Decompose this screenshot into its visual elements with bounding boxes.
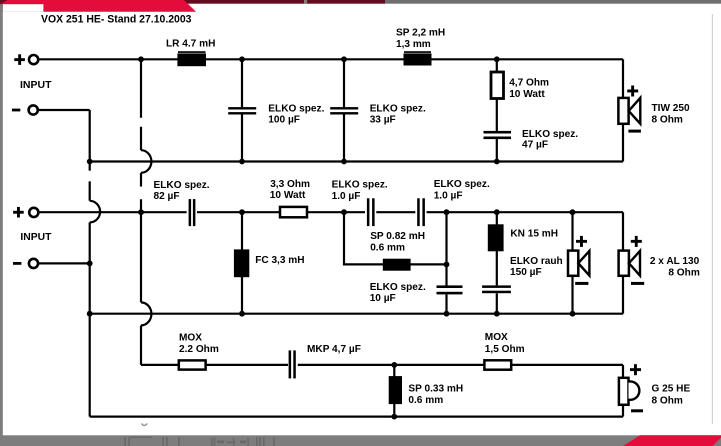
resistor 3,3 Ohm 10 Watt <box>280 207 307 217</box>
wire: circuit3 bottom rail <box>90 416 623 418</box>
wire: circuit1 bottom rail <box>90 160 623 162</box>
wire: circuit1 top rail <box>38 58 623 60</box>
svg-text:10 Watt: 10 Watt <box>509 89 545 100</box>
svg-text:MKP 4,7 µF: MKP 4,7 µF <box>307 344 361 355</box>
capacitor ELKO spez. 1.0uF no.2 (series) <box>417 198 425 226</box>
svg-text:SP 0.33 mH: SP 0.33 mH <box>408 384 463 395</box>
input terminal plus circuit2 <box>13 207 38 218</box>
maroon corner triangle <box>0 0 8 5</box>
svg-text:ELKO spez.: ELKO spez. <box>268 104 324 115</box>
speaker TIW 250 minus sign <box>628 130 641 133</box>
resistor 4,7 Ohm 10 Watt <box>491 72 504 99</box>
bottom band thumbnail marks <box>124 437 275 446</box>
wire: vertical E (ELKO 10uF) <box>445 212 447 314</box>
svg-text:1,3 mm: 1,3 mm <box>396 39 431 50</box>
svg-text:8 Ohm: 8 Ohm <box>668 267 699 278</box>
svg-text:ELKO spez.: ELKO spez. <box>332 180 388 191</box>
svg-text:3,3 Ohm: 3,3 Ohm <box>270 179 310 190</box>
svg-text:1.0 µF: 1.0 µF <box>332 191 361 202</box>
junction dot input2 minus tee <box>87 261 93 267</box>
svg-text:10 Watt: 10 Watt <box>270 190 306 201</box>
svg-text:ELKO rauh: ELKO rauh <box>510 256 563 267</box>
wire: vertical A lower <box>89 222 91 416</box>
junction dot circuit3 bottom rail <box>391 414 397 420</box>
svg-text:ELKO spez.: ELKO spez. <box>370 282 426 293</box>
junction dot circuit3 branch <box>391 362 397 368</box>
junction dots circuit1 bottom rail <box>87 159 500 165</box>
left gray border <box>0 4 3 446</box>
svg-text:VOX 251 HE- Stand 27.10.2003: VOX 251 HE- Stand 27.10.2003 <box>41 13 192 25</box>
svg-text:1.0 µF: 1.0 µF <box>434 191 463 202</box>
speaker TIW 250 <box>618 98 640 124</box>
svg-text:FC 3,3 mH: FC 3,3 mH <box>255 255 304 266</box>
wire: input2 minus lead <box>38 262 90 264</box>
input terminal minus circuit2 <box>13 259 38 268</box>
wire: circuit3 branch line <box>141 364 623 366</box>
svg-text:ELKO spez.: ELKO spez. <box>370 104 426 115</box>
wire: SP 0.82 branch (from junction at x344 down and right) <box>344 212 447 264</box>
speaker AL130 no.1 plus sign <box>576 236 587 247</box>
speaker TIW 250 plus sign <box>627 86 638 97</box>
junction dots circuit2 top rail <box>138 209 575 215</box>
capacitor ELKO spez. 100uF <box>228 107 256 114</box>
speaker AL130 no.1 <box>568 251 589 276</box>
wire: vertical G (speaker AL130 no.1) <box>571 212 573 314</box>
resistor MOX 1,5 Ohm <box>484 360 511 369</box>
capacitor ELKO rauh 150uF <box>482 285 511 293</box>
junction dots circuit2 bottom rail <box>87 311 576 317</box>
faint arc mark below bottom rail <box>142 424 148 426</box>
input terminal minus circuit1 <box>12 105 38 114</box>
svg-text:G 25 HE: G 25 HE <box>652 384 691 395</box>
wire: vertical F circuit1 (4,7 Ohm + 47uF branch) <box>496 59 498 161</box>
svg-text:ELKO spez.: ELKO spez. <box>434 179 490 190</box>
wire: vertical F circuit2 (KN + 150uF) <box>496 212 498 314</box>
wire: vertical D circuit1 (cap 33uF branch) <box>343 59 345 161</box>
wire: vertical C circuit1 (cap 100uF branch) <box>241 59 243 161</box>
svg-text:33 µF: 33 µF <box>370 114 396 125</box>
svg-text:INPUT: INPUT <box>20 80 52 91</box>
svg-text:8 Ohm: 8 Ohm <box>652 395 683 406</box>
top banner light tick in maroon strip <box>304 0 307 4</box>
svg-text:0.6 mm: 0.6 mm <box>370 242 405 253</box>
top banner gray strip <box>385 0 721 4</box>
speaker AL130 no.2 <box>619 251 640 276</box>
capacitor ELKO spez. 82uF (series) <box>189 199 196 226</box>
wire: circuit3 right drop <box>622 365 624 417</box>
resistor MOX 2,2 Ohm <box>179 360 206 369</box>
speaker AL130 no.2 plus sign <box>631 236 642 247</box>
svg-text:MOX: MOX <box>179 333 202 344</box>
svg-text:LR 4.7 mH: LR 4.7 mH <box>166 38 215 49</box>
wire: circuit1 right rail <box>622 59 624 161</box>
wire: vertical B middle segments <box>140 173 142 303</box>
inductor FC 3,3 mH <box>234 249 249 277</box>
inductor SP 0.82 mH <box>383 259 411 271</box>
capacitor MKP 4,7uF (series) <box>289 350 296 378</box>
wire hop: vertical A over circuit2 top rail <box>90 201 100 223</box>
capacitor ELKO spez. 33uF <box>330 107 358 114</box>
wire: input1 minus lead <box>38 109 90 111</box>
wire: circuit2 top rail <box>38 211 623 213</box>
svg-text:KN 15 mH: KN 15 mH <box>510 229 558 240</box>
svg-text:ELKO spez.: ELKO spez. <box>522 129 578 140</box>
bottom gray band <box>0 435 721 446</box>
inductor SP 0.33 mH <box>389 376 402 404</box>
wire: vertical at FC 3,3mH <box>241 212 243 314</box>
svg-text:2 x AL 130: 2 x AL 130 <box>650 256 700 267</box>
wire: vertical A upper <box>89 110 91 201</box>
svg-text:150 µF: 150 µF <box>510 267 542 278</box>
speaker AL130 no.1 minus sign <box>575 282 588 285</box>
white notch <box>3 4 44 12</box>
inductor KN 15 mH <box>488 224 504 251</box>
svg-text:100 µF: 100 µF <box>268 114 300 125</box>
svg-text:82 µF: 82 µF <box>154 191 180 202</box>
capacitor ELKO spez. 10uF <box>437 285 463 294</box>
speaker G 25 HE <box>619 378 639 405</box>
right separator line <box>712 14 713 424</box>
wire hop: vertical B over circuit2 bottom rail <box>141 302 151 325</box>
svg-text:0.6 mm: 0.6 mm <box>408 395 443 406</box>
wire: circuit2 bottom rail <box>90 313 623 315</box>
svg-text:2.2 Ohm: 2.2 Ohm <box>179 344 219 355</box>
red tab <box>0 0 196 12</box>
speaker G 25 HE plus sign <box>630 364 641 375</box>
inductor LR 4.7 mH <box>177 51 206 66</box>
junction dots circuit1 top rail <box>138 56 500 62</box>
svg-text:TIW 250: TIW 250 <box>652 103 691 114</box>
speaker AL130 no.2 minus sign <box>631 282 644 285</box>
svg-text:ELKO spez.: ELKO spez. <box>154 180 210 191</box>
inductor SP 2,2 mH <box>404 51 432 65</box>
top banner dark maroon strip <box>0 0 385 4</box>
wire: circuit2 right rail <box>622 212 624 314</box>
junction dot SP082 to vertical E <box>444 262 450 268</box>
svg-text:10 µF: 10 µF <box>370 293 396 304</box>
wire hop: vertical B over circuit1 bottom rail <box>141 150 151 173</box>
bottom red strip <box>623 435 721 446</box>
speaker G 25 HE minus sign <box>631 409 643 412</box>
svg-text:8 Ohm: 8 Ohm <box>652 114 683 125</box>
svg-text:MOX: MOX <box>485 332 508 343</box>
svg-text:INPUT: INPUT <box>20 232 52 243</box>
svg-text:1,5 Ohm: 1,5 Ohm <box>485 344 525 355</box>
wire: vertical B lower <box>140 325 142 365</box>
capacitor ELKO spez. 47uF <box>484 131 512 139</box>
svg-text:4,7 Ohm: 4,7 Ohm <box>509 78 549 89</box>
wire: vertical B upper segments <box>140 59 142 150</box>
svg-text:47 µF: 47 µF <box>522 140 548 151</box>
svg-text:SP 2,2 mH: SP 2,2 mH <box>396 28 445 39</box>
wire: SP 0.33 branch vertical <box>393 365 395 417</box>
input terminal plus circuit1 <box>14 54 38 65</box>
svg-text:SP 0.82 mH: SP 0.82 mH <box>370 231 425 242</box>
capacitor ELKO spez. 1.0uF no.1 (series) <box>367 198 375 226</box>
